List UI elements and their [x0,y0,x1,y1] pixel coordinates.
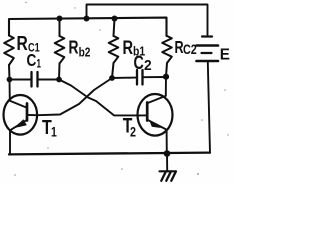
T1 collector lead [10,101,27,108]
wire ground stub [166,154,168,171]
svg-text:E: E [220,46,230,63]
T1 emitter arrow [14,119,27,128]
svg-text:C2: C2 [183,42,197,57]
resistor RC1 [4,36,14,66]
T1 emitter lead [10,120,27,130]
T2 collector lead [148,96,166,103]
wire T1 collector from node A [9,80,11,101]
wire Rb1 top to rail [114,19,115,37]
junction Rb1 top rail [112,16,118,22]
wire bottom ground rail [9,153,210,155]
wire RC1 bottom to node A [8,65,11,80]
svg-text:R: R [69,38,79,58]
svg-text:1: 1 [37,58,42,71]
svg-text:2: 2 [144,57,152,73]
battery E plates [202,35,212,37]
node A (RC1 / C1 / T1 collector) [7,77,13,83]
T2 emitter lead [148,120,167,130]
transistor T1 body [4,95,38,135]
svg-text:1: 1 [51,124,57,140]
ground [160,170,177,172]
T1 base bar [26,104,29,121]
wire cross-coupling node B to T2 base [59,80,140,116]
wire T2 collector from node D [165,77,167,96]
T1 base lead [27,114,37,116]
wire node A to C1 left plate [10,79,31,81]
resistor RC2 [162,36,172,63]
scan speckles [14,2,229,176]
wire top supply rail (left corner to RC2 top) [9,18,167,36]
wire Rb2 top to rail [59,19,61,37]
wire T1 emitter to bottom rail [9,130,11,154]
svg-text:R: R [123,36,134,59]
capacitor C2 [136,70,138,85]
wire T2 emitter to bottom rail [166,130,168,154]
resistor Rb1 [109,36,119,63]
resistor Rb2 [55,36,65,64]
wire cross-coupling node C to T1 base [37,78,112,115]
wire battery tap from top rail to battery positive [87,5,208,36]
node E ground junction on bottom rail [164,150,171,157]
junction Rb2 top rail [57,16,63,22]
node C (Rb1 / C2 / T1 base wire) [109,75,115,81]
T2 base bar [146,103,149,121]
node D (RC2 / C2 / T2 collector) [163,74,169,80]
svg-text:C: C [134,52,144,73]
wire node C to C2 left plate [112,77,136,79]
transistor T2 body [138,94,173,136]
junction battery tap on rail [84,16,90,22]
T2 emitter arrow [149,120,161,128]
wire Rb1 bottom to node C [112,63,114,78]
capacitor C1 [30,72,32,87]
svg-text:C: C [27,52,37,71]
wire RC2 bottom to node D [166,63,167,77]
T2 base lead [140,114,148,116]
svg-text:2: 2 [130,125,136,140]
wire Rb2 bottom to node B [58,64,61,80]
wire C1 right plate to node B [39,79,60,81]
wire C2 right plate to node D [144,76,167,78]
svg-text:b2: b2 [79,45,91,59]
node B (Rb2 / C1 / T2 base wire) [56,77,62,83]
wire battery bottom to bottom rail [208,62,210,153]
